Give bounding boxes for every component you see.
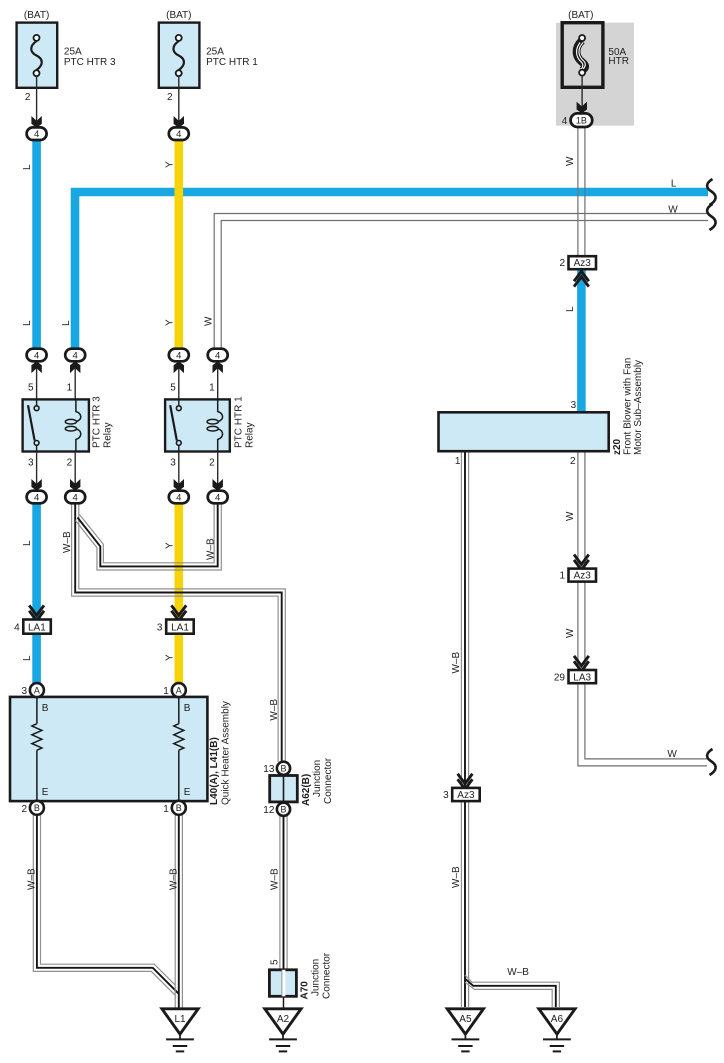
svg-text:B: B xyxy=(280,764,286,774)
wire W horizontal to right edge and down to relay R2 pin 1 xyxy=(214,214,708,351)
svg-text:Motor Sub–Assembly: Motor Sub–Assembly xyxy=(633,360,644,455)
wire label W (to relay R2 pin1) xyxy=(203,316,214,326)
svg-text:A70: A70 xyxy=(300,981,311,1000)
svg-text:Relay: Relay xyxy=(245,422,256,448)
wire label Y (LA1 to heater pin 1A) xyxy=(164,654,175,661)
svg-text:W: W xyxy=(565,511,576,521)
connector 3 LA1 xyxy=(157,605,194,633)
wire W-B z20 pin 1 down to ground A5 xyxy=(461,451,468,1007)
wire L blue fuse1 to relay R1 pin 5 xyxy=(32,136,41,352)
connector 4 LA1 xyxy=(14,605,51,633)
svg-text:W: W xyxy=(667,749,677,760)
svg-text:Y: Y xyxy=(164,654,175,661)
wire label W-B (z20 pin1 to Az3) xyxy=(451,652,462,674)
svg-text:Az3: Az3 xyxy=(574,571,592,582)
svg-text:PTC HTR 3: PTC HTR 3 xyxy=(64,57,116,68)
svg-text:2: 2 xyxy=(570,456,576,467)
svg-text:A6: A6 xyxy=(551,1014,564,1025)
wire L blue main horizontal from relay branch to right edge xyxy=(75,192,708,352)
wire label W-B (relay R1 pin2) xyxy=(62,531,73,553)
wire label Y (fuse2 to relay, upper) xyxy=(164,161,175,168)
relay PTC HTR 1 xyxy=(165,349,255,504)
svg-text:3: 3 xyxy=(21,686,27,697)
wire W-B A62 pin 12 down to A70 xyxy=(280,812,287,970)
svg-text:5: 5 xyxy=(269,959,280,965)
svg-text:5: 5 xyxy=(170,383,176,394)
svg-text:W: W xyxy=(565,628,576,638)
svg-text:2: 2 xyxy=(67,457,73,468)
relay PTC HTR 3 xyxy=(23,349,114,504)
wire W z20 pin 2 down to LA3 and right to edge xyxy=(578,451,707,766)
svg-text:12: 12 xyxy=(263,805,275,816)
svg-text:LA1: LA1 xyxy=(28,622,46,633)
svg-text:1: 1 xyxy=(455,456,461,467)
wire label L (branch to relay pin1) xyxy=(61,320,72,326)
wire label L (fuse1 to relay, lower) xyxy=(22,320,33,326)
wire W-B relay R2 pin 2 down, left, diagonal joining R1 pin 2 wire xyxy=(76,500,222,570)
wire label W-B (A62 to A70) xyxy=(269,868,280,890)
svg-text:Quick Heater Assembly: Quick Heater Assembly xyxy=(221,701,232,805)
svg-text:3: 3 xyxy=(170,457,176,468)
svg-text:Junction: Junction xyxy=(311,959,322,996)
svg-text:W–B: W–B xyxy=(269,699,280,721)
svg-text:B: B xyxy=(34,803,40,813)
svg-text:Y: Y xyxy=(164,161,175,168)
wire W-B heater pin 2B down, right, diagonal joining pin 1B wire xyxy=(33,804,178,995)
svg-text:A5: A5 xyxy=(459,1014,472,1025)
svg-text:Y: Y xyxy=(164,319,175,326)
svg-text:A62(B): A62(B) xyxy=(301,774,312,806)
junction connector A70 xyxy=(269,952,332,999)
svg-text:1: 1 xyxy=(163,686,169,697)
wire label L (LA1 to heater pin 3A) xyxy=(22,655,33,661)
svg-text:3: 3 xyxy=(443,790,449,801)
svg-text:L1: L1 xyxy=(174,1014,186,1025)
svg-text:(BAT): (BAT) xyxy=(24,10,49,21)
svg-text:Connector: Connector xyxy=(323,757,334,804)
fusible link block (gray background) xyxy=(556,23,634,126)
svg-text:W–B: W–B xyxy=(269,868,280,890)
wire L blue connector Az3 to z20 pin 3 xyxy=(577,266,586,414)
svg-text:Junction: Junction xyxy=(312,760,323,797)
wire label W-B (above A62) xyxy=(269,699,280,721)
svg-text:W: W xyxy=(565,156,576,166)
svg-text:2: 2 xyxy=(21,804,27,815)
svg-text:B: B xyxy=(176,803,182,813)
svg-text:29: 29 xyxy=(554,672,566,683)
svg-text:E: E xyxy=(42,787,49,798)
svg-text:Az3: Az3 xyxy=(574,258,592,269)
svg-text:3: 3 xyxy=(157,622,163,633)
fusible link 50A HTR xyxy=(562,10,629,127)
svg-text:2: 2 xyxy=(25,92,31,103)
svg-text:Az3: Az3 xyxy=(457,790,475,801)
wire label W (z20 pin2 to Az3) xyxy=(565,511,576,521)
svg-text:2: 2 xyxy=(559,258,565,269)
svg-text:W–B: W–B xyxy=(62,531,73,553)
connector 3 Az3 xyxy=(443,774,480,801)
wire W-B heater pin 1B down to ground L1 xyxy=(175,804,182,1008)
svg-text:L: L xyxy=(565,306,576,312)
wire label W (1B to Az3) xyxy=(565,156,576,166)
svg-text:L: L xyxy=(671,179,677,190)
svg-text:1: 1 xyxy=(67,383,73,394)
svg-text:W–B: W–B xyxy=(205,538,216,560)
wire label L (relay pin3 to LA1) xyxy=(22,540,33,546)
svg-text:L40(A), L41(B): L40(A), L41(B) xyxy=(209,737,220,805)
connector 29 LA3 xyxy=(554,656,596,683)
wire W-B branch to ground A6 xyxy=(465,975,559,1007)
wire W-B relay R1 pin 2 down, right, down to A62 pin 13 xyxy=(72,500,286,762)
svg-text:HTR: HTR xyxy=(608,56,629,67)
wire label L (Az3 to z20 pin3) xyxy=(565,306,576,312)
svg-text:A: A xyxy=(34,685,40,695)
svg-text:Relay: Relay xyxy=(103,422,114,448)
svg-text:B: B xyxy=(280,805,286,815)
wire break symbol (W wire, right edge) xyxy=(707,204,716,230)
svg-text:4: 4 xyxy=(14,622,20,633)
wire break symbol (lower W wire, right edge) xyxy=(707,749,716,775)
svg-text:L: L xyxy=(22,164,33,170)
connector 2 Az3 xyxy=(559,256,596,286)
svg-text:A: A xyxy=(176,685,182,695)
svg-text:4: 4 xyxy=(562,116,568,127)
svg-text:Connector: Connector xyxy=(322,952,333,999)
svg-text:L: L xyxy=(61,320,72,326)
connector 1 Az3 xyxy=(559,555,596,582)
wire label W-B (Az3 to ground A5) xyxy=(451,866,462,888)
svg-text:W–B: W–B xyxy=(168,868,179,890)
wire label Y (fuse2 to relay, lower) xyxy=(164,319,175,326)
svg-text:PTC HTR 1: PTC HTR 1 xyxy=(206,57,258,68)
wire Y yellow relay R2 pin 3 to heater pin 1A xyxy=(175,500,184,688)
fuse 25A PTC HTR 3 xyxy=(17,10,116,140)
svg-text:1: 1 xyxy=(163,804,169,815)
svg-text:3: 3 xyxy=(28,457,34,468)
svg-text:B: B xyxy=(42,703,49,714)
wire break symbol (L wire, right edge) xyxy=(707,179,716,205)
svg-text:LA3: LA3 xyxy=(573,672,591,683)
svg-text:A2: A2 xyxy=(277,1014,290,1025)
svg-text:1: 1 xyxy=(559,571,565,582)
svg-text:PTC HTR 1: PTC HTR 1 xyxy=(234,396,245,448)
wire single A70 to ground A2 xyxy=(283,996,285,1009)
wire label W (Az3 to LA3) xyxy=(565,628,576,638)
ground L1 xyxy=(162,1009,198,1052)
svg-text:W–B: W–B xyxy=(451,652,462,674)
fuse 25A PTC HTR 1 xyxy=(159,10,258,140)
svg-text:3: 3 xyxy=(571,400,577,411)
wire label W-B (relay R2 pin2) xyxy=(205,538,216,560)
wire label Y (relay pin3 to LA1) xyxy=(164,542,175,549)
svg-text:1B: 1B xyxy=(576,116,587,126)
svg-text:W: W xyxy=(668,204,678,215)
quick heater assembly L40(A) L41(B) xyxy=(10,683,232,815)
svg-text:W–B: W–B xyxy=(27,868,38,890)
svg-text:W: W xyxy=(203,316,214,326)
ground A6 xyxy=(539,1009,575,1052)
wire label W-B (heater pin 1B) xyxy=(168,868,179,890)
svg-text:5: 5 xyxy=(28,383,34,394)
svg-text:2: 2 xyxy=(167,92,173,103)
svg-text:E: E xyxy=(184,787,191,798)
z20 front blower with fan motor sub-assembly xyxy=(439,358,645,467)
ground A5 xyxy=(447,1009,483,1052)
ground A2 xyxy=(265,1009,301,1052)
wire W from fusible link 1B down to Az3 xyxy=(578,126,585,256)
svg-text:(BAT): (BAT) xyxy=(568,10,593,21)
wire label L (fuse1 to relay, upper) xyxy=(22,164,33,170)
svg-text:(BAT): (BAT) xyxy=(166,10,191,21)
svg-text:L: L xyxy=(22,320,33,326)
svg-text:z20: z20 xyxy=(612,438,623,455)
svg-text:2: 2 xyxy=(209,457,215,468)
svg-text:Front Blower with Fan: Front Blower with Fan xyxy=(623,358,634,455)
junction connector A62(B) xyxy=(263,757,334,816)
svg-text:W–B: W–B xyxy=(451,866,462,888)
svg-text:L: L xyxy=(22,655,33,661)
svg-text:W–B: W–B xyxy=(507,967,529,978)
wire L blue relay R1 pin 3 to heater pin 3A xyxy=(32,500,41,688)
svg-text:L: L xyxy=(22,540,33,546)
svg-text:B: B xyxy=(184,703,191,714)
wire Y yellow fuse2 to relay R2 pin 5 xyxy=(175,136,184,352)
svg-text:Y: Y xyxy=(164,542,175,549)
svg-text:LA1: LA1 xyxy=(171,622,189,633)
svg-text:13: 13 xyxy=(263,764,275,775)
svg-text:PTC HTR 3: PTC HTR 3 xyxy=(92,396,103,448)
svg-text:1: 1 xyxy=(209,383,215,394)
wire label W-B (heater pin 2B) xyxy=(27,868,38,890)
